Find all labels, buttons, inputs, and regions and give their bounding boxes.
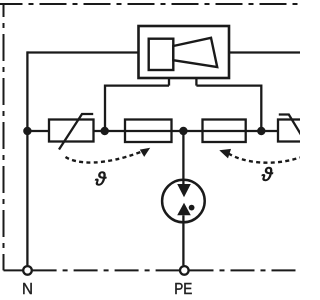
terminal N (open circle)	[23, 266, 32, 275]
enclosure boundary bottom (dash-dot)	[4, 269, 23, 271]
acoustic signalling device U1: transducer square	[149, 39, 174, 70]
acoustic signalling device U1 (outer box)	[139, 26, 230, 78]
thermal disconnect arrow right (dashed)	[229, 154, 301, 163]
varistor RV1 diagonal stroke	[59, 114, 93, 150]
svg-text:PE: PE	[174, 281, 192, 298]
node B centre junction	[179, 127, 187, 135]
spark gap electrode (upper triangle)	[177, 184, 191, 197]
enclosure boundary left (dash-dot)	[3, 4, 5, 270]
wire: left arm from leg down to node A	[105, 86, 169, 131]
node A junction	[101, 127, 109, 135]
wire: box left leg	[168, 78, 170, 86]
wire: from node B down to spark gap	[182, 131, 184, 184]
fuse / disconnector F2	[203, 120, 246, 143]
enclosure boundary top (dash-dot)	[0, 3, 300, 5]
wire: from spark gap down to PE terminal	[182, 215, 184, 265]
wire: middle row from left rail to varistor RV1	[27, 130, 49, 132]
acoustic signalling device U1: horn	[173, 38, 217, 67]
wire: top horizontal from signalling box to right edge	[229, 51, 300, 53]
svg-text:ϑ: ϑ	[94, 168, 107, 190]
terminal PE (open circle)	[180, 266, 189, 275]
wire: box right leg	[195, 78, 197, 86]
thermal disconnect arrowhead left	[140, 148, 150, 157]
wire: right arm from leg down to node C	[196, 86, 261, 131]
wire: middle row through fuses F1,F2 to varistor RV2	[94, 130, 279, 132]
varistor RV2 body (clipped at right edge)	[278, 120, 320, 142]
enclosure boundary bottom right (dash-dot)	[190, 269, 301, 271]
node C junction	[257, 127, 265, 135]
node: left rail junction	[23, 127, 31, 135]
thermal disconnect arrowhead right	[219, 149, 231, 159]
svg-text:N: N	[22, 281, 33, 298]
enclosure boundary bottom middle (dash-dot)	[33, 269, 180, 271]
fuse / disconnector F1	[125, 120, 172, 143]
thermal disconnect arrow left (dashed)	[66, 152, 141, 163]
varistor RV1 body	[49, 120, 94, 142]
spark gap gas-filled dot	[189, 205, 195, 211]
wire: top horizontal from left rail to signalling box	[27, 51, 138, 53]
svg-text:ϑ: ϑ	[261, 164, 274, 186]
varistor RV2 diagonal stroke	[279, 115, 310, 150]
spark gap / gas discharge tube F3 (circle)	[162, 180, 205, 223]
spark gap electrode (lower triangle)	[177, 203, 191, 216]
wire: left rail vertical (N rail)	[26, 51, 28, 265]
